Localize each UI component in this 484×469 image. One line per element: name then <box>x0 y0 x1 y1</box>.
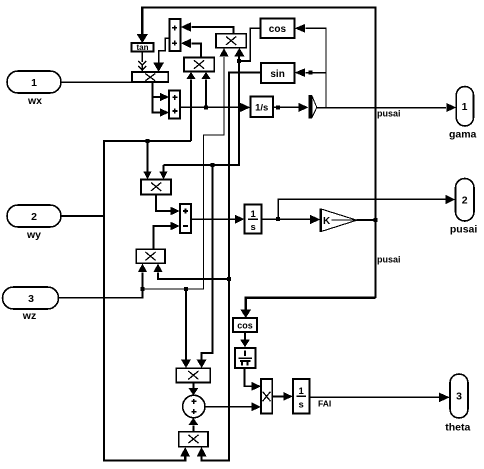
wire wy main run <box>61 139 191 216</box>
svg-text:s: s <box>250 222 255 233</box>
svg-text:tan: tan <box>137 43 149 52</box>
wire wz main <box>58 264 147 298</box>
wire wx to product <box>61 81 132 83</box>
svg-text:wx: wx <box>27 95 42 107</box>
svg-text:sin: sin <box>270 69 284 80</box>
sum block second (inputs left, output right) <box>169 91 180 119</box>
svg-text:1: 1 <box>462 101 468 113</box>
inport 2 wy <box>7 205 61 241</box>
wire branch up to outport2 <box>278 195 455 219</box>
mux block <box>309 95 317 119</box>
gain block K <box>321 209 357 233</box>
wire productT output to sum circle <box>188 383 198 396</box>
wire mux output to outport1 <box>317 103 457 112</box>
svg-text:pusai: pusai <box>377 255 401 265</box>
wire pi block output to productV <box>244 368 261 391</box>
wire cos2 to pi block <box>240 332 250 347</box>
svg-text:1: 1 <box>31 77 37 89</box>
svg-text:theta: theta <box>445 422 470 434</box>
wire cos line down to y164.8 row <box>159 61 239 179</box>
svg-text:cos: cos <box>269 24 287 35</box>
svg-text:pusai: pusai <box>377 109 401 119</box>
outport 3 theta <box>445 374 470 434</box>
block cos (top) <box>261 19 295 39</box>
wide product block (wx row) <box>132 72 168 82</box>
wire sin branch to product5 <box>153 264 229 279</box>
svg-text:1/s: 1/s <box>255 103 268 114</box>
product block 4 (wy*cos row) <box>141 180 171 195</box>
wire sum2 output to integrator 1/s <box>180 103 250 112</box>
wire gama feedback riser to cos sin <box>295 24 326 108</box>
sum block top (inputs right, output left) <box>170 19 181 51</box>
wire sum-top output to wide product <box>153 38 169 72</box>
sum circle <box>183 395 205 417</box>
outport 2 pusai <box>450 179 478 236</box>
wire x212 drop to productT input2 <box>197 165 213 368</box>
product block V (tall) <box>261 379 272 414</box>
sum block 3 (plus minus) <box>180 204 191 233</box>
svg-text:cos: cos <box>237 320 253 330</box>
inport 1 wx <box>7 71 61 107</box>
wire sum circle output to productV <box>205 402 261 411</box>
wire pusai line down to cos2 <box>240 298 375 318</box>
integrator block 3 (1/s fraction) <box>293 379 310 414</box>
product block 2 (wy*gamadot) <box>184 57 214 71</box>
outport 1 gama <box>449 87 477 141</box>
block tan <box>132 43 154 52</box>
svg-text:FAI: FAI <box>318 398 331 408</box>
wire productV output to integrator3 <box>272 392 293 401</box>
wire tan output chevrons <box>138 52 146 72</box>
svg-text:3: 3 <box>456 391 462 403</box>
wire product5 output to sum3 minus <box>154 222 180 250</box>
wire productB output to sum circle <box>188 418 198 432</box>
inport 3 wz <box>3 287 59 322</box>
wire product2 output to sum-top lower input <box>181 39 201 58</box>
product block 3 (top right) <box>216 34 246 48</box>
svg-text:pusai: pusai <box>450 224 478 236</box>
svg-text:wz: wz <box>22 310 36 322</box>
wire integrator1 output to mux <box>273 103 309 112</box>
svg-text:2: 2 <box>31 211 37 223</box>
wire integrator3 output to outport3 <box>310 393 450 403</box>
svg-text:K: K <box>323 216 331 227</box>
wire gain output to pusai line <box>357 218 378 222</box>
svg-text:wy: wy <box>26 229 41 241</box>
wire sum3 output to integrator2 <box>191 215 244 224</box>
wire product4 output to sum3 plus <box>156 195 180 216</box>
wire wz drop to productT <box>181 289 191 368</box>
wire pusai feedback top <box>137 8 376 298</box>
product block 5 (wz*sin row) <box>136 249 165 263</box>
svg-text:gama: gama <box>449 129 477 141</box>
wire wz branch right and riser to product3 <box>143 48 229 291</box>
integrator block 2 (1/s fraction) <box>245 204 262 233</box>
wire wy riser to product2 <box>186 72 196 141</box>
svg-text:2: 2 <box>462 195 468 207</box>
svg-text:3: 3 <box>28 293 34 305</box>
wire product3 output to sum-top upper input <box>181 22 234 33</box>
wire integrator2 output to gain <box>262 215 321 224</box>
product block B (lowest) <box>179 432 208 447</box>
block sin <box>261 63 294 83</box>
svg-text:1: 1 <box>299 386 305 397</box>
wire sin output down the page <box>197 73 261 461</box>
wire cos output down to product3 <box>234 28 260 63</box>
wire wy bottom run <box>104 216 190 461</box>
block 1/pi <box>235 348 256 368</box>
block cos2 <box>233 318 257 332</box>
svg-text:s: s <box>299 399 304 410</box>
wire wide product output to sum below <box>152 82 169 117</box>
product block T (upper bottom row) <box>176 368 210 382</box>
integrator block 1 (1/s inline) <box>251 97 274 118</box>
node gamadot branch <box>201 72 211 110</box>
